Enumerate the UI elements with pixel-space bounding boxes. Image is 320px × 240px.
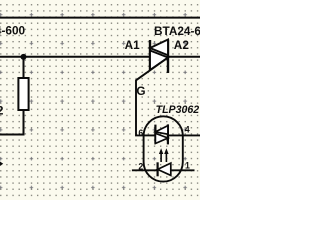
wire: gate lead from triac to optocoupler pin 6 [136, 58, 168, 136]
wire: pin 2 stub [132, 169, 158, 171]
svg-text:BTA24-600: BTA24-600 [154, 24, 200, 38]
triac T1 upper triangle [150, 40, 168, 56]
svg-text:BTA24-600: BTA24-600 [0, 24, 26, 38]
wire: resistor bottom lead to left edge [0, 110, 24, 135]
light arrow 1 (LED to triac) [160, 152, 162, 163]
svg-text:A2: A2 [174, 38, 190, 52]
svg-text:A1: A1 [125, 38, 141, 52]
svg-text:TLP3062: TLP3062 [156, 104, 200, 116]
wire: mid horizontal net to triac A1 [0, 56, 150, 58]
triac T1 left bar (MT1) [149, 40, 151, 70]
light arrow 2 (LED to triac) [165, 152, 167, 163]
grid dots [0, 0, 200, 200]
optocoupler U1 body outline (stadium) [144, 116, 183, 181]
tick mark at left edge [0, 162, 3, 167]
opto-triac upper triangle [155, 126, 168, 135]
junction node on mid net [21, 54, 27, 60]
svg-text:1: 1 [185, 160, 190, 170]
wire: pin 1 stub [171, 169, 195, 171]
opto-triac right bar [167, 124, 169, 144]
wire: pin 4 stub [168, 134, 200, 136]
svg-text:2: 2 [0, 104, 4, 118]
triac T1 lower triangle [150, 51, 168, 71]
svg-text:6: 6 [138, 128, 143, 138]
svg-text:4: 4 [185, 125, 190, 135]
wire: mid horizontal net from triac A2 to right edge [168, 56, 200, 58]
resistor R (left branch) [23, 57, 25, 78]
LED triangle inside optocoupler [158, 163, 171, 175]
svg-text:2: 2 [138, 162, 143, 172]
LED cathode bar inside optocoupler [157, 162, 159, 176]
opto-triac lower triangle [155, 133, 168, 143]
wire: top horizontal net [0, 17, 200, 19]
svg-text:G: G [136, 84, 145, 98]
triac T1 right bar (MT2) [167, 40, 169, 74]
opto-triac left bar [154, 125, 156, 144]
